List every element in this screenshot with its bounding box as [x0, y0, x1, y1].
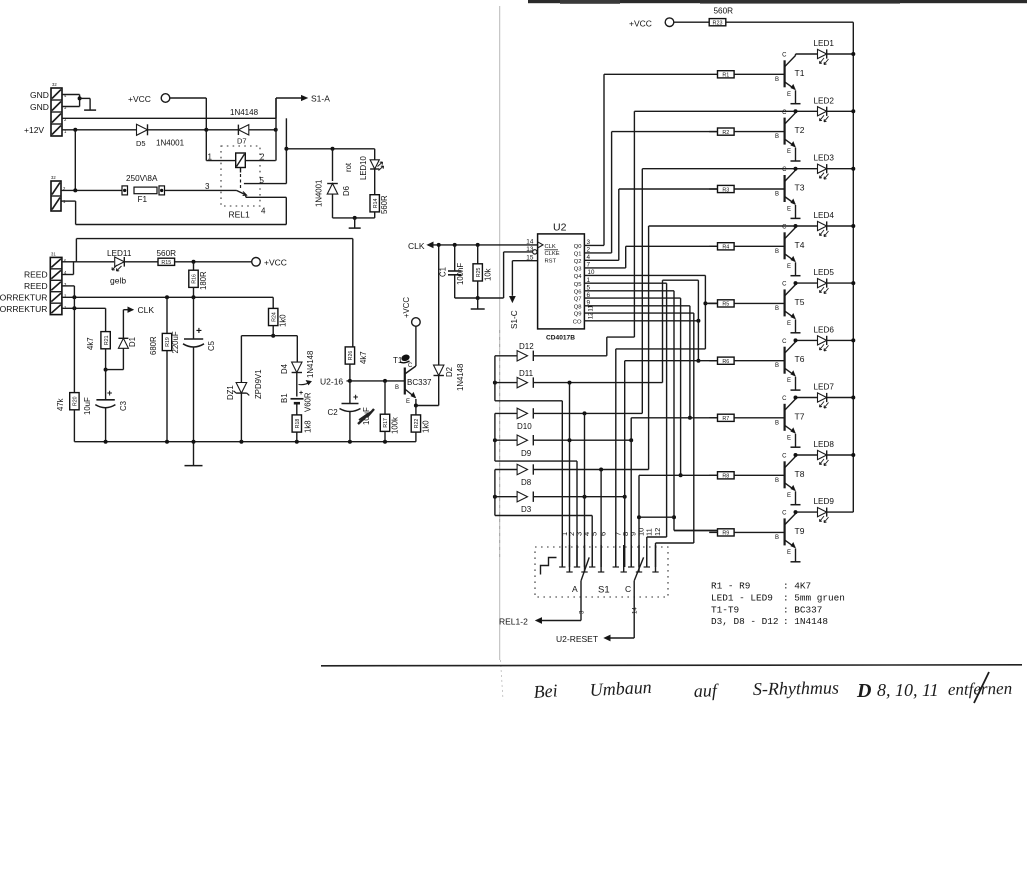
svg-text:4k7: 4k7 [86, 337, 95, 350]
LED LED7 5mm gruen [796, 393, 854, 408]
resistor R3 4K7 [709, 185, 784, 193]
wire Q7 to T8 base [584, 298, 682, 477]
capacitor C5 220uF [183, 297, 204, 465]
svg-text:REL1: REL1 [229, 210, 251, 220]
junction +12V/fuse drop [73, 128, 77, 132]
svg-text:CO: CO [573, 319, 582, 325]
label T1 driver with blob [393, 353, 411, 365]
svg-text:: 5mm gruen: : 5mm gruen [783, 592, 845, 603]
node T8 collector [794, 453, 798, 457]
svg-text:U2: U2 [553, 222, 567, 234]
wire Q9 to S1 pin12 [584, 313, 693, 567]
svg-text:1k0: 1k0 [422, 420, 431, 433]
svg-text:E: E [787, 435, 791, 441]
node T6 collector [794, 338, 798, 342]
svg-text:4: 4 [261, 207, 266, 216]
transistor T1 (driver) BC337 [405, 327, 416, 406]
resistor R26 4k7 [345, 239, 354, 383]
svg-text:14: 14 [632, 607, 639, 614]
ground symbol T7 [791, 446, 801, 448]
label 10uF C2 with scribble [358, 407, 374, 425]
svg-text:E: E [787, 493, 791, 499]
svg-text:10uF: 10uF [83, 397, 92, 415]
transistor T4 BC337 [785, 226, 796, 276]
svg-text:E: E [787, 92, 791, 98]
LED LED3 5mm gruen [796, 164, 854, 179]
svg-text:REL1-2: REL1-2 [499, 617, 528, 627]
wire T5 base stub [705, 302, 717, 304]
wire T9 base row [674, 530, 718, 532]
wire RC bottom to U2 pin13 [455, 252, 533, 298]
svg-text:D4: D4 [280, 363, 289, 374]
svg-text:LED9: LED9 [814, 497, 835, 506]
LED LED9 5mm gruen [796, 508, 854, 523]
parts list text [711, 581, 845, 628]
diode D5 1N4001 [136, 124, 206, 148]
wire bottom return to connector [61, 201, 286, 224]
svg-text:S1-A: S1-A [311, 94, 330, 104]
resistor R22 1k0 [411, 406, 420, 442]
svg-text:S1: S1 [598, 585, 610, 596]
svg-text:B: B [775, 420, 779, 426]
svg-text:B: B [775, 192, 779, 198]
resistor R20 47k column [70, 297, 79, 441]
relay REL1 dotted box [221, 146, 260, 206]
svg-text:D: D [856, 680, 871, 702]
svg-text:U2-RESET: U2-RESET [556, 634, 598, 644]
svg-text:S-Rhythmus: S-Rhythmus [753, 678, 839, 699]
svg-text:Q1: Q1 [574, 252, 582, 258]
svg-text:Q2: Q2 [574, 259, 582, 265]
svg-text:B1: B1 [280, 393, 289, 403]
ground symbol D6 branch [349, 227, 361, 229]
svg-text:C: C [408, 363, 413, 369]
wire Q2 to T3 base [584, 189, 717, 260]
svg-text:C5: C5 [207, 340, 216, 351]
scan edge artifact top [528, 0, 1027, 4]
wire group C anode route to S1 pin5 [495, 470, 592, 568]
ground symbol T6 [791, 389, 801, 391]
node LED2 rail [851, 109, 855, 113]
wire Q3 to T4 base [584, 246, 717, 268]
wire LED2 row left extension [634, 110, 795, 112]
resistor R14 560R [370, 195, 379, 218]
svg-text:6: 6 [599, 532, 608, 536]
wire D6/R14 bottom [333, 216, 375, 228]
transistor T2 BC337 [785, 111, 796, 161]
svg-text:560R: 560R [380, 195, 389, 214]
resistor R4 4K7 [709, 243, 784, 251]
LED LED8 5mm gruen [796, 450, 854, 465]
svg-text:B: B [775, 306, 779, 312]
wire KORREKTUR pin1 row [62, 306, 106, 331]
transistor T1 BC337 [785, 54, 796, 104]
svg-text:rot: rot [344, 162, 353, 172]
wire section top rail [62, 239, 353, 262]
wire D11 bridge to T6 base [663, 280, 701, 382]
ground symbol T5 [791, 332, 801, 334]
wire Q4 to T5 base and S1 pin7 [584, 275, 717, 567]
wire LED2 tap to D12 [607, 111, 635, 355]
node T2 collector [794, 109, 798, 113]
svg-text:R17: R17 [383, 418, 389, 428]
resistor R19 680R [162, 297, 171, 441]
wire Q0 to T1 base [584, 74, 717, 245]
svg-text:: 4K7: : 4K7 [783, 581, 811, 592]
svg-text:+VCC: +VCC [128, 94, 151, 104]
wire LED3 row left extension [642, 168, 795, 170]
relay coil REL1 [206, 153, 275, 189]
svg-text:+: + [353, 392, 358, 402]
svg-text:E: E [787, 378, 791, 384]
wire Q6 to T9 base [584, 291, 717, 531]
svg-text:+: + [107, 388, 112, 398]
wire R24 node split [241, 336, 297, 383]
diode D4 1N4148 [292, 362, 302, 396]
resistor R7 4K7 [709, 414, 784, 422]
svg-text:1N4148: 1N4148 [230, 108, 259, 117]
LED LED11 gelb [76, 257, 158, 271]
svg-text:15: 15 [526, 255, 534, 262]
svg-text:E: E [787, 207, 791, 213]
svg-text:47k: 47k [56, 398, 65, 411]
wire +12V rail [62, 129, 137, 131]
resistor R1 4K7 [718, 71, 785, 79]
ground symbol T2 [791, 160, 801, 162]
LED LED4 5mm gruen [796, 221, 854, 236]
svg-text:R6: R6 [722, 359, 729, 365]
svg-text:R1 - R9: R1 - R9 [711, 581, 750, 592]
svg-text:D8: D8 [521, 478, 532, 487]
svg-text:REED: REED [24, 281, 48, 291]
svg-text:D2: D2 [445, 367, 454, 377]
svg-text:R21: R21 [104, 335, 110, 345]
svg-text:T1: T1 [795, 68, 805, 78]
wire T1 base row [347, 379, 405, 383]
wire S1 pin10 column / R8 link [637, 475, 674, 567]
node T3 collector [794, 167, 798, 171]
svg-text:B: B [775, 134, 779, 140]
svg-text:R22: R22 [414, 419, 420, 429]
svg-text:D1: D1 [128, 337, 137, 347]
svg-text:100k: 100k [391, 417, 400, 434]
svg-text:180R: 180R [199, 271, 208, 290]
node LED1 rail [851, 52, 855, 56]
LED LED2 5mm gruen [796, 107, 854, 122]
svg-text:E: E [787, 149, 791, 155]
connector X2 (GND/GND/+12V) [51, 82, 67, 136]
resistor R15 560R [158, 258, 252, 266]
ground symbol connector [84, 109, 96, 111]
svg-text:B: B [775, 363, 779, 369]
svg-text:C: C [782, 396, 787, 402]
ground symbol T4 [791, 275, 801, 277]
svg-text:gelb: gelb [110, 276, 126, 286]
wire KORREKTUR pin2 row [62, 295, 273, 299]
node LED8 rail [851, 453, 855, 457]
wire connector pin2 long [62, 117, 276, 119]
node LED5 rail [851, 281, 855, 285]
svg-text:GND: GND [30, 102, 49, 112]
wire U2 pin15 RST to S1-C [510, 261, 538, 302]
wire Q5 to S1 pin11 [584, 283, 666, 567]
svg-text:R15: R15 [161, 260, 171, 266]
svg-text:R8: R8 [722, 474, 729, 480]
svg-text:+VCC: +VCC [402, 297, 411, 318]
svg-text:R18: R18 [295, 419, 301, 429]
S1 pin contact ticks [559, 545, 659, 572]
svg-text:Q8: Q8 [574, 304, 582, 310]
svg-text:T6: T6 [795, 354, 805, 364]
wire LED4 tap to D8 [648, 226, 650, 470]
U2 left pin numbers 14 13 15 [526, 239, 534, 262]
+VCC terminal top-right [629, 18, 709, 29]
node LED3 rail [851, 167, 855, 171]
svg-text:B: B [775, 478, 779, 484]
svg-text:560R: 560R [714, 7, 734, 16]
resistor R17 100k [380, 381, 389, 442]
svg-text:4k7: 4k7 [359, 351, 368, 364]
svg-text:Q3: Q3 [574, 267, 582, 273]
svg-text:LED6: LED6 [814, 325, 835, 334]
svg-text:T8: T8 [795, 469, 805, 479]
svg-text:R2: R2 [722, 130, 729, 136]
svg-text:LED3: LED3 [814, 154, 835, 163]
svg-text:560R: 560R [157, 249, 177, 258]
wire +VCC down to coil [204, 98, 208, 161]
svg-text:C: C [782, 511, 787, 517]
wire S1 pin4 column [584, 413, 586, 567]
svg-text:D6: D6 [342, 186, 351, 196]
svg-text:Q0: Q0 [574, 244, 582, 250]
svg-text:: BC337: : BC337 [783, 604, 822, 615]
svg-text:REED: REED [24, 270, 48, 280]
wire relay contact arm [236, 190, 286, 224]
wire CO to T6 riser [584, 319, 700, 323]
svg-text:C1: C1 [439, 267, 448, 277]
connector X1 (REED/KORREKTUR) 5-pin [50, 252, 67, 315]
svg-text:1N4148: 1N4148 [306, 351, 315, 378]
svg-text:B: B [775, 77, 779, 83]
wire relay pin5 [244, 183, 287, 185]
svg-text:R23: R23 [713, 21, 723, 27]
LED LED5 5mm gruen [796, 279, 854, 294]
svg-text:R25: R25 [476, 268, 482, 278]
diode D8 1N4148 row [495, 464, 649, 474]
connector X3 (2-pin) [51, 175, 66, 211]
svg-text:R14: R14 [373, 198, 379, 208]
svg-text:+VCC: +VCC [264, 258, 287, 268]
svg-text:D5: D5 [136, 139, 146, 148]
diode D12 1N4148 row [495, 351, 607, 361]
wire pin4 bracket [62, 262, 74, 275]
capacitor C2 10uF [340, 381, 361, 442]
svg-text:100nF: 100nF [456, 263, 465, 285]
svg-text:R26: R26 [348, 351, 354, 361]
svg-text:D11: D11 [519, 369, 534, 378]
wire CLK line to U2 pin14 [428, 242, 538, 247]
svg-text:LED10: LED10 [359, 155, 368, 180]
svg-text:32: 32 [52, 82, 57, 87]
svg-text:LED2: LED2 [814, 96, 835, 105]
zener DZ1 ZPD9V1 [234, 383, 250, 442]
svg-text:32: 32 [51, 175, 56, 180]
resistor R18 1k8 [292, 415, 301, 442]
svg-text:1k0: 1k0 [279, 314, 288, 327]
transistor T3 BC337 [785, 169, 796, 219]
wire LED3 tap to D10 [641, 169, 643, 414]
svg-text:S1-C: S1-C [510, 310, 519, 329]
ground symbol T9 [791, 561, 801, 563]
svg-text:+: + [196, 326, 202, 337]
svg-text:KORREKTUR: KORREKTUR [0, 304, 47, 314]
resistor R2 4K7 [709, 128, 784, 136]
wire GND pins bracket [62, 95, 90, 111]
svg-text:LED1 - LED9: LED1 - LED9 [711, 592, 773, 603]
svg-text:D3, D8 - D12: D3, D8 - D12 [711, 616, 779, 627]
diode D6 1N4001 [327, 147, 338, 218]
svg-text:LED11: LED11 [107, 249, 132, 258]
svg-text:R9: R9 [722, 531, 729, 537]
svg-text:C: C [782, 53, 787, 59]
transistor T7 BC337 [785, 398, 796, 448]
svg-text:T1-T9: T1-T9 [711, 604, 739, 615]
diode D10 1N4148 row [495, 408, 642, 418]
svg-text:1: 1 [208, 153, 213, 162]
resistor R21 4k7 [101, 332, 110, 372]
node T7 collector [794, 396, 798, 400]
svg-text:R3: R3 [722, 187, 729, 193]
diode D1 and CLK tap [106, 307, 133, 369]
wire emitter node [414, 404, 439, 408]
wire group A anode route to S1 pin1 [495, 356, 562, 567]
svg-text:LED8: LED8 [814, 440, 835, 449]
U2 output labels Q0-Q9 CO [573, 244, 582, 325]
node LED7 rail [851, 396, 855, 400]
svg-text:R1: R1 [722, 73, 729, 79]
fuse F1 250V/8A [122, 186, 236, 195]
ground symbol T1 [791, 103, 801, 105]
LED LED1 5mm gruen [796, 49, 854, 64]
svg-text:B: B [775, 535, 779, 541]
svg-text:R16: R16 [192, 274, 198, 284]
svg-text:8, 10, 11: 8, 10, 11 [877, 680, 939, 700]
svg-text:V60R: V60R [304, 392, 313, 412]
svg-text:CD4017B: CD4017B [546, 335, 575, 342]
capacitor C1 100nF [448, 245, 462, 298]
svg-text:250V\8A: 250V\8A [126, 174, 158, 183]
svg-text:E: E [406, 399, 410, 405]
svg-text:C3: C3 [119, 401, 128, 411]
transistor T6 BC337 [785, 340, 796, 390]
svg-text:RST: RST [545, 259, 557, 265]
svg-text:D10: D10 [517, 422, 532, 431]
svg-text:A: A [572, 584, 578, 594]
resistor R8 4K7 [709, 472, 784, 480]
svg-text:R7: R7 [722, 416, 729, 422]
svg-text:CLK: CLK [138, 305, 155, 315]
resistor R5 4K7 [709, 300, 784, 308]
wire Q8 to T7 base [584, 306, 692, 420]
ground symbol C5 [185, 465, 203, 467]
svg-text:B: B [775, 249, 779, 255]
+VCC terminal mid-left [252, 258, 287, 268]
wire S1 pin8 column / D3 to T6 base [624, 361, 626, 567]
svg-text:T9: T9 [795, 526, 805, 536]
svg-text:Umbaun: Umbaun [589, 677, 652, 700]
svg-text:E: E [787, 264, 791, 270]
svg-text:CLK: CLK [545, 244, 556, 250]
svg-text:+12V: +12V [24, 125, 44, 135]
svg-text:LED4: LED4 [814, 211, 835, 220]
wire S1-A branch [276, 96, 307, 119]
svg-text:E: E [787, 550, 791, 556]
svg-text:10k: 10k [484, 268, 493, 281]
svg-text:T3: T3 [795, 183, 805, 193]
svg-text:U2-16: U2-16 [320, 377, 343, 387]
svg-text:D7: D7 [237, 137, 247, 146]
switch S1 dotted box [535, 547, 668, 597]
svg-text:LED7: LED7 [814, 383, 835, 392]
node LED6 rail [851, 338, 855, 342]
battery B1 [291, 390, 304, 415]
ground symbol RC [471, 298, 485, 309]
IC U2 CD4017B body [533, 234, 585, 329]
S1 wiper C to U2-RESET [605, 557, 644, 640]
svg-text:13: 13 [526, 246, 534, 253]
svg-text:C: C [782, 339, 787, 345]
svg-text:D3: D3 [521, 505, 532, 514]
resistor R23 560R [709, 19, 853, 27]
resistor R25 10k [473, 245, 482, 300]
resistor R9 4K7 [709, 529, 784, 537]
wire fuse line [61, 188, 122, 192]
ground symbol T3 [791, 217, 801, 219]
U2 output pin numbers [587, 239, 595, 319]
S1 pin number labels [560, 528, 662, 536]
S1 wiper A to REL1-2 [536, 557, 589, 623]
LED anode rail [852, 22, 854, 512]
svg-text:1N4001: 1N4001 [156, 139, 185, 148]
handwritten note [533, 677, 1012, 702]
ground symbol T8 [791, 504, 801, 506]
svg-text:3: 3 [205, 182, 210, 191]
S1 common step symbol [541, 558, 557, 575]
svg-text:ZPD9V1: ZPD9V1 [254, 370, 263, 399]
svg-text:C: C [782, 282, 787, 288]
wire branch to D6/LED10 [284, 118, 374, 183]
svg-text:+VCC: +VCC [629, 19, 652, 29]
wire +12V to fuse line [74, 130, 76, 191]
svg-text:3: 3 [579, 610, 586, 614]
transistor T8 BC337 [785, 455, 796, 505]
svg-text:31: 31 [51, 252, 56, 257]
+VCC terminal T1 [402, 297, 420, 327]
ground rail bottom-left [74, 440, 416, 444]
svg-text:B: B [395, 385, 399, 391]
svg-text:C2: C2 [328, 408, 339, 417]
LED LED6 5mm gruen [796, 336, 854, 351]
svg-text:1N4148: 1N4148 [456, 364, 465, 391]
svg-text:T2: T2 [795, 125, 805, 135]
diode D3 1N4148 row [493, 492, 627, 502]
svg-text:1k8: 1k8 [304, 420, 313, 433]
svg-text:680R: 680R [149, 336, 158, 355]
+VCC terminal top-left [128, 94, 206, 104]
svg-text:LED5: LED5 [814, 268, 835, 277]
diode D9 1N4148 row [493, 435, 633, 445]
svg-text:11: 11 [644, 528, 653, 536]
